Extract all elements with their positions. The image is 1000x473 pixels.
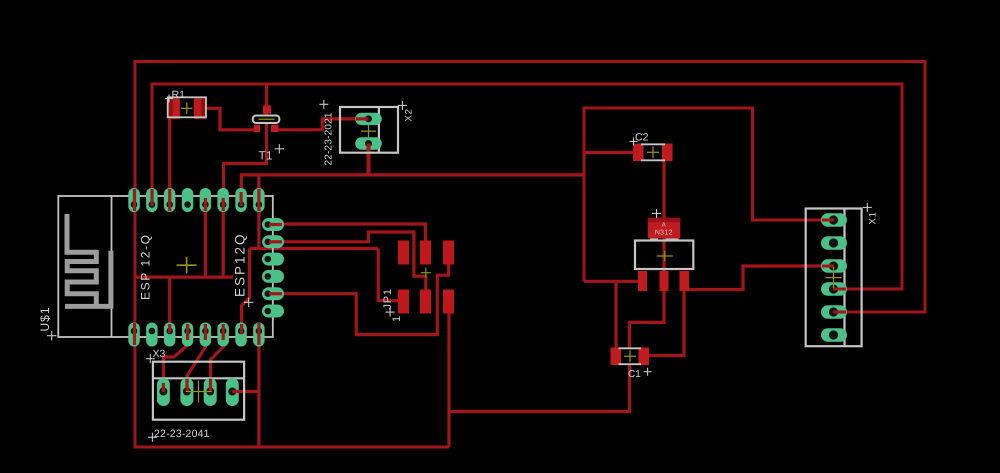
wire ESP bottom pad5 to X3 pad2	[187, 338, 205, 392]
svg-text:1: 1	[391, 316, 403, 322]
wire net3 top horizontal to X1 pad1	[584, 108, 824, 281]
wire outer border net VCC	[135, 62, 925, 448]
wire interior to bottom pad3	[168, 277, 171, 333]
antenna meander of U$1	[65, 214, 111, 306]
wire ESP padE to JP1 padT3	[282, 263, 449, 335]
svg-text:X2: X2	[404, 108, 415, 121]
module U$1 ESP 12-Q outline	[58, 196, 272, 337]
svg-text:R1: R1	[171, 89, 185, 101]
U$1 ESP bottom row pads	[128, 323, 264, 347]
wire ESP bottom pad6 to X3 pad3	[211, 338, 224, 392]
JP1 origin cross	[421, 268, 431, 278]
wire T1 top pad up	[265, 84, 268, 106]
U$1 text origin cross	[47, 331, 56, 340]
R1 text origin cross	[165, 95, 173, 103]
wire top pad6 down	[222, 206, 225, 277]
svg-text:U$1: U$1	[38, 306, 52, 331]
capacitor C2	[633, 144, 673, 162]
svg-text:JP1: JP1	[382, 288, 394, 309]
U$1 ESP right column pads	[262, 218, 284, 318]
wire branch to C2 left pad	[584, 151, 636, 154]
wire R1 left pad to top pad3	[168, 116, 171, 204]
22-23-2021 text origin cross	[319, 100, 328, 109]
connector X2 22-23-2021	[340, 107, 398, 153]
wire R1 right pad to T1 left pad	[205, 108, 256, 130]
wire ESP bottom pad8 down	[257, 334, 260, 447]
connector X3 22-23-2041	[153, 362, 244, 420]
JP1 text origin cross	[386, 308, 395, 317]
wire C1 right pad to regulator pad3	[649, 290, 684, 356]
wire to C1 left pad	[614, 281, 617, 352]
wire to JP1 pad4	[378, 249, 400, 301]
wire JP1 pad6 down to bottom border	[447, 311, 450, 447]
T1 text origin cross	[275, 144, 284, 153]
wire ESP bottom pad4 to X3 pad1	[163, 338, 187, 392]
wire pad8 drop	[257, 175, 260, 249]
wire T1 top pad down to top pad6	[224, 112, 267, 202]
wire to regulator pad1	[584, 280, 639, 283]
U$1 ESP pad holes	[131, 201, 271, 334]
wire ESP interior horizontal	[135, 276, 233, 279]
regulator IC1 N312	[635, 218, 693, 291]
wire pad8 to bottom pad7	[242, 249, 250, 335]
wire T1 right pad to X2 pad1	[277, 119, 358, 130]
wire C2 right pad down to regulator	[662, 160, 665, 272]
svg-text:ESP 12-Q: ESP 12-Q	[139, 233, 153, 300]
U$1 ESP trace stubs over connected holes	[135, 189, 283, 345]
svg-text:C1: C1	[628, 369, 641, 380]
U$1 origin cross	[177, 257, 197, 274]
C2 text origin cross	[630, 138, 638, 146]
svg-text:T1: T1	[258, 149, 272, 163]
connector X1	[806, 209, 862, 347]
wire long horizontal y175	[241, 175, 584, 200]
wire X2 pad2 drop	[367, 146, 371, 176]
U$1 ESP top row pads	[128, 188, 264, 212]
wire regulator pad3 to X1 pad3	[688, 266, 824, 290]
wire top pad5 down	[204, 206, 207, 277]
svg-text:X1: X1	[868, 211, 879, 224]
wire ESP padA to JP1 padT2	[282, 224, 426, 242]
regulator origin cross	[652, 209, 661, 218]
wire ESP padB to JP1 pad5	[282, 232, 426, 291]
svg-text:22-23-2021: 22-23-2021	[324, 112, 335, 165]
C1 text origin cross	[644, 368, 652, 376]
transistor T1	[253, 105, 280, 132]
X2 text origin cross	[398, 101, 407, 110]
wire horizontal y248	[250, 247, 379, 250]
capacitor C1	[611, 348, 650, 366]
jumper JP1	[398, 241, 454, 314]
X3 text origin cross	[146, 354, 155, 363]
resistor R1	[168, 97, 206, 119]
wire X3 pad4 right	[232, 390, 259, 393]
wire second border net	[152, 84, 902, 289]
svg-text:22-23-2041: 22-23-2041	[154, 428, 210, 440]
X1 text origin cross	[863, 203, 872, 212]
wire regulator pad2 to C1 and y412	[449, 290, 664, 412]
22-23-2041 text origin cross	[148, 433, 157, 442]
svg-text:A: A	[662, 222, 666, 228]
svg-text:N312: N312	[655, 229, 673, 236]
svg-text:ESP12Q: ESP12Q	[233, 232, 248, 297]
ESP12Q text origin cross	[244, 298, 253, 307]
